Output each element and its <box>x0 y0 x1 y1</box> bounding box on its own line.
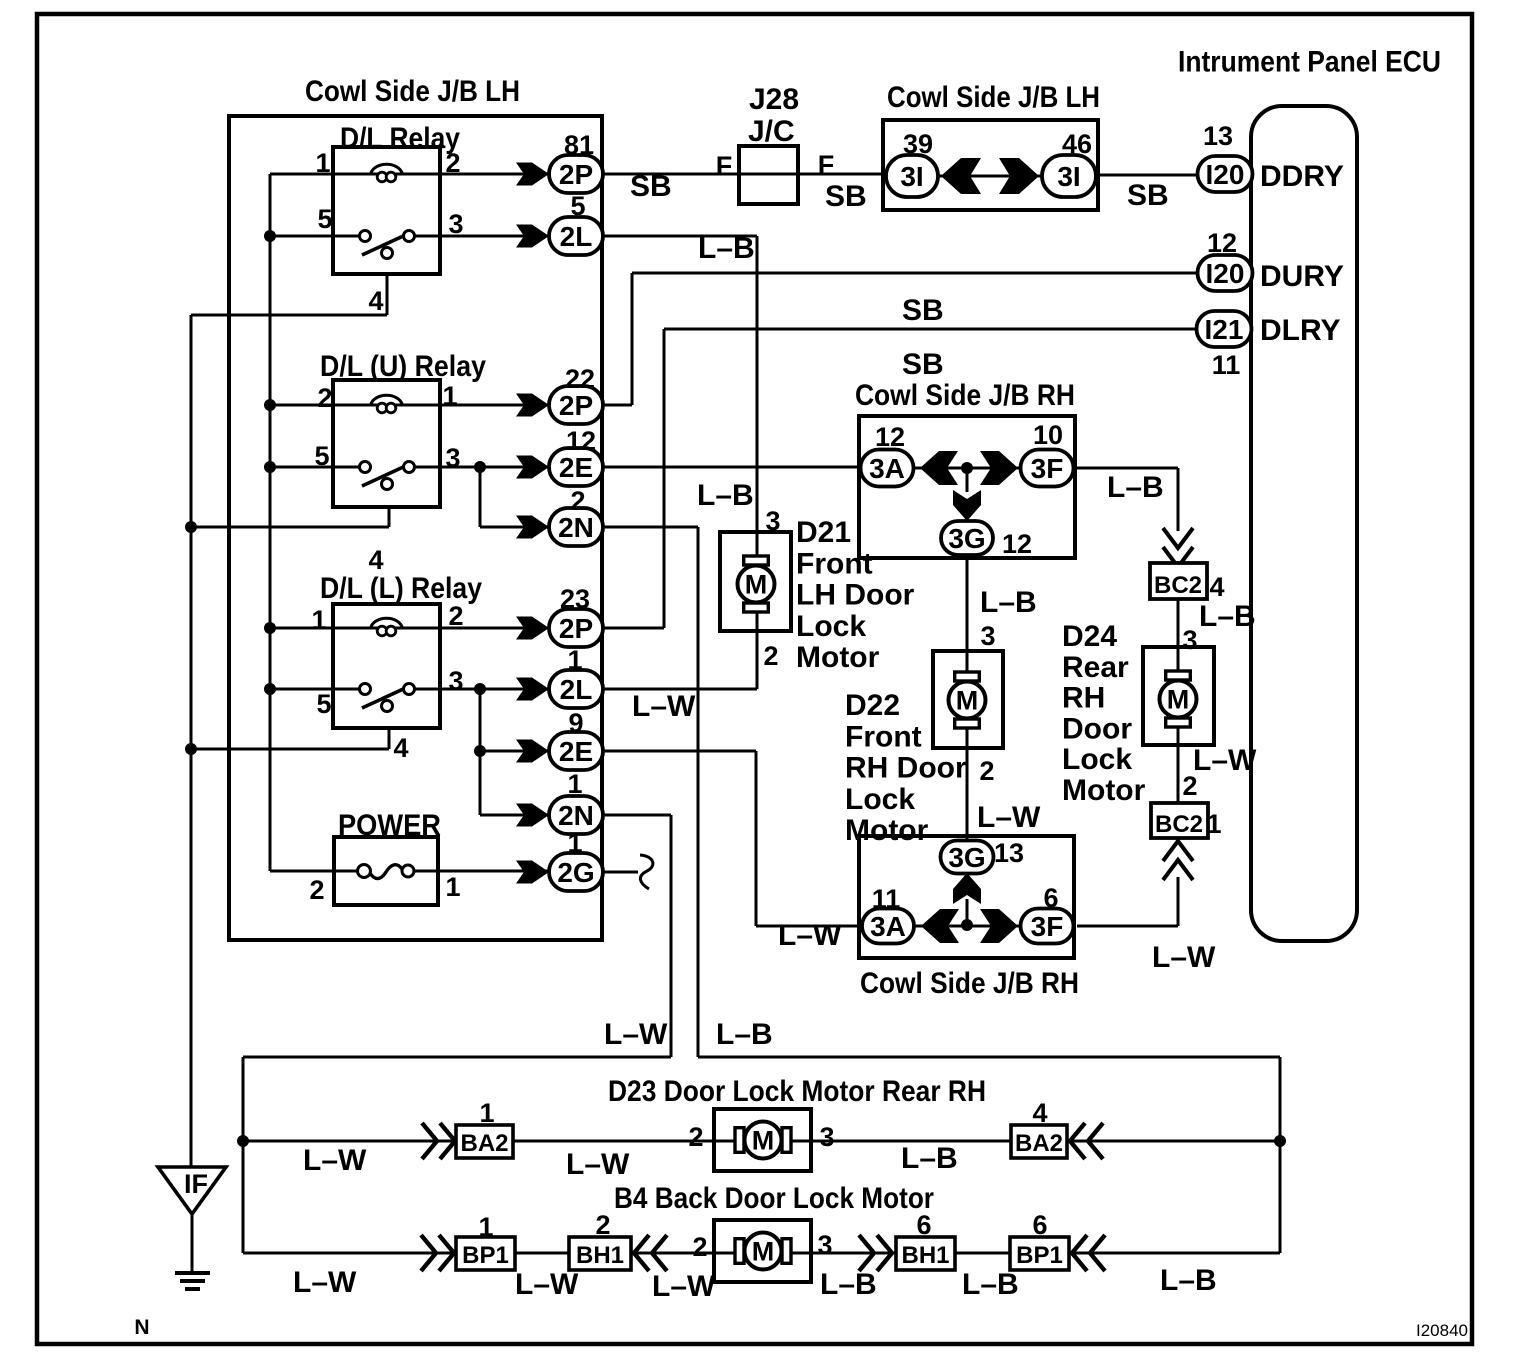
svg-text:DLRY: DLRY <box>1260 314 1341 347</box>
svg-text:L–B: L–B <box>1199 600 1256 633</box>
svg-text:M: M <box>956 686 979 716</box>
svg-text:1: 1 <box>311 605 326 635</box>
svg-text:1: 1 <box>1206 809 1221 839</box>
svg-text:1: 1 <box>442 381 457 411</box>
svg-text:Cowl Side J/B LH: Cowl Side J/B LH <box>887 81 1100 114</box>
svg-text:L–W: L–W <box>977 801 1041 834</box>
svg-text:LH Door: LH Door <box>796 579 915 612</box>
svg-text:2: 2 <box>317 383 332 413</box>
svg-text:Cowl Side J/B LH: Cowl Side J/B LH <box>305 75 520 108</box>
svg-text:2L: 2L <box>560 674 593 705</box>
svg-text:6: 6 <box>916 1210 931 1240</box>
svg-text:1: 1 <box>567 828 582 858</box>
svg-text:L–B: L–B <box>1160 1264 1217 1297</box>
svg-text:BH1: BH1 <box>576 1242 624 1269</box>
svg-text:D21: D21 <box>796 516 851 549</box>
svg-text:2: 2 <box>445 148 460 178</box>
svg-text:3G: 3G <box>948 842 985 873</box>
svg-text:L–W: L–W <box>515 1268 579 1301</box>
svg-text:3: 3 <box>765 506 780 536</box>
svg-text:39: 39 <box>903 129 933 159</box>
svg-text:2P: 2P <box>559 390 593 421</box>
svg-text:D/L (U) Relay: D/L (U) Relay <box>320 350 486 383</box>
svg-text:11: 11 <box>1212 350 1241 380</box>
svg-text:2P: 2P <box>559 613 593 644</box>
svg-text:DURY: DURY <box>1260 260 1344 293</box>
svg-text:L–B: L–B <box>697 479 754 512</box>
svg-text:2N: 2N <box>558 800 594 831</box>
svg-text:L–B: L–B <box>901 1142 958 1175</box>
svg-text:5: 5 <box>570 191 585 221</box>
svg-text:2G: 2G <box>557 857 594 888</box>
svg-text:1: 1 <box>479 1098 494 1128</box>
svg-text:M: M <box>745 570 768 600</box>
svg-text:L–B: L–B <box>698 232 755 265</box>
svg-text:12: 12 <box>566 426 596 456</box>
svg-text:L–B: L–B <box>980 586 1037 619</box>
svg-text:81: 81 <box>564 130 594 160</box>
svg-text:I20: I20 <box>1206 159 1245 190</box>
svg-text:5: 5 <box>317 204 332 234</box>
svg-text:F: F <box>818 150 835 180</box>
svg-text:3F: 3F <box>1031 453 1064 484</box>
svg-text:Front: Front <box>845 720 922 753</box>
svg-text:11: 11 <box>872 884 901 914</box>
svg-text:M: M <box>752 1237 775 1267</box>
svg-text:B4 Back Door Lock Motor: B4 Back Door Lock Motor <box>614 1182 934 1215</box>
svg-text:3: 3 <box>980 621 995 651</box>
svg-text:BP1: BP1 <box>462 1242 509 1269</box>
svg-text:2: 2 <box>595 1210 610 1240</box>
svg-text:I21: I21 <box>1205 314 1244 345</box>
svg-text:1: 1 <box>567 645 582 675</box>
svg-text:POWER: POWER <box>338 809 441 842</box>
svg-text:13: 13 <box>994 838 1024 868</box>
svg-text:1: 1 <box>478 1212 493 1242</box>
svg-text:BP1: BP1 <box>1016 1242 1063 1269</box>
svg-text:Lock: Lock <box>845 783 915 816</box>
svg-text:4: 4 <box>1032 1098 1047 1128</box>
svg-text:L–W: L–W <box>566 1148 630 1181</box>
svg-text:1: 1 <box>445 872 460 902</box>
svg-text:BC2: BC2 <box>1154 572 1202 599</box>
svg-text:D23 Door Lock Motor Rear RH: D23 Door Lock Motor Rear RH <box>608 1075 986 1108</box>
svg-text:3: 3 <box>819 1122 834 1152</box>
svg-text:SB: SB <box>825 180 867 213</box>
svg-text:M: M <box>752 1126 775 1156</box>
svg-text:10: 10 <box>1033 420 1063 450</box>
svg-text:SB: SB <box>630 170 672 203</box>
svg-text:2E: 2E <box>559 736 593 767</box>
svg-text:J28: J28 <box>749 83 799 116</box>
svg-text:5: 5 <box>316 689 331 719</box>
svg-text:RH: RH <box>1062 682 1105 715</box>
svg-text:3: 3 <box>448 666 463 696</box>
svg-text:12: 12 <box>1002 529 1032 559</box>
svg-text:Front: Front <box>796 547 873 580</box>
svg-text:2: 2 <box>570 486 585 516</box>
svg-text:J/C: J/C <box>748 115 795 148</box>
svg-text:I20840: I20840 <box>1416 1321 1468 1340</box>
svg-text:M: M <box>1167 685 1190 715</box>
svg-text:3: 3 <box>445 443 460 473</box>
svg-text:22: 22 <box>565 364 595 394</box>
svg-text:L–W: L–W <box>604 1018 668 1051</box>
svg-text:D/L Relay: D/L Relay <box>340 122 460 155</box>
svg-text:2P: 2P <box>559 159 593 190</box>
svg-text:L–B: L–B <box>962 1268 1019 1301</box>
svg-text:2L: 2L <box>560 221 593 252</box>
svg-text:BH1: BH1 <box>901 1242 949 1269</box>
svg-text:RH Door: RH Door <box>845 752 967 785</box>
svg-text:6: 6 <box>1032 1210 1047 1240</box>
svg-text:4: 4 <box>368 545 383 575</box>
svg-text:Rear: Rear <box>1062 651 1129 684</box>
svg-text:SB: SB <box>1127 179 1169 212</box>
svg-text:23: 23 <box>560 584 590 614</box>
svg-text:12: 12 <box>1207 228 1237 258</box>
svg-text:2: 2 <box>979 756 994 786</box>
svg-text:SB: SB <box>902 294 944 327</box>
svg-text:3I: 3I <box>900 161 923 192</box>
svg-text:2N: 2N <box>558 512 594 543</box>
svg-text:3G: 3G <box>948 523 985 554</box>
svg-text:BC2: BC2 <box>1155 811 1203 838</box>
svg-text:4: 4 <box>368 286 383 316</box>
svg-text:N: N <box>134 1316 149 1339</box>
svg-text:F: F <box>716 151 733 181</box>
svg-text:Cowl Side J/B RH: Cowl Side J/B RH <box>860 967 1079 1000</box>
svg-text:L–W: L–W <box>652 1270 716 1303</box>
svg-text:46: 46 <box>1062 129 1092 159</box>
svg-text:5: 5 <box>314 441 329 471</box>
svg-text:SB: SB <box>902 348 944 381</box>
svg-text:Intrument Panel ECU: Intrument Panel ECU <box>1178 46 1441 79</box>
svg-text:2E: 2E <box>559 452 593 483</box>
svg-text:2: 2 <box>448 601 463 631</box>
svg-text:4: 4 <box>393 733 408 763</box>
svg-text:I20: I20 <box>1206 258 1245 289</box>
svg-text:9: 9 <box>568 708 583 738</box>
svg-text:2: 2 <box>688 1122 703 1152</box>
svg-text:L–B: L–B <box>716 1018 773 1051</box>
svg-text:BA2: BA2 <box>1015 1130 1063 1157</box>
svg-text:L–W: L–W <box>632 690 696 723</box>
svg-text:Door: Door <box>1062 712 1132 745</box>
svg-text:2: 2 <box>309 875 324 905</box>
svg-text:3: 3 <box>1182 625 1197 655</box>
svg-text:6: 6 <box>1043 883 1058 913</box>
svg-text:Motor: Motor <box>796 641 880 674</box>
svg-text:1: 1 <box>567 769 582 799</box>
svg-text:Lock: Lock <box>796 610 866 643</box>
svg-text:3A: 3A <box>869 453 905 484</box>
svg-text:L–W: L–W <box>1152 941 1216 974</box>
svg-text:Motor: Motor <box>1062 774 1146 807</box>
svg-text:L–W: L–W <box>1193 744 1257 777</box>
svg-text:2: 2 <box>763 641 778 671</box>
svg-text:4: 4 <box>1209 572 1224 602</box>
svg-text:Cowl Side J/B RH: Cowl Side J/B RH <box>855 379 1075 412</box>
svg-text:Lock: Lock <box>1062 743 1132 776</box>
svg-text:L–B: L–B <box>1107 471 1164 504</box>
svg-text:L–W: L–W <box>303 1144 367 1177</box>
svg-text:Motor: Motor <box>845 814 929 847</box>
svg-text:2: 2 <box>1182 771 1197 801</box>
svg-text:12: 12 <box>875 422 905 452</box>
svg-text:1: 1 <box>315 148 330 178</box>
svg-text:IF: IF <box>184 1169 208 1199</box>
svg-text:BA2: BA2 <box>460 1130 508 1157</box>
svg-text:D22: D22 <box>845 689 900 722</box>
svg-text:L–B: L–B <box>820 1268 877 1301</box>
svg-text:D24: D24 <box>1062 620 1117 653</box>
svg-text:3I: 3I <box>1057 161 1080 192</box>
svg-text:3F: 3F <box>1031 911 1064 942</box>
svg-text:3A: 3A <box>870 911 906 942</box>
svg-text:13: 13 <box>1203 121 1233 151</box>
svg-text:3: 3 <box>817 1230 832 1260</box>
svg-text:3: 3 <box>448 209 463 239</box>
svg-text:2: 2 <box>692 1232 707 1262</box>
svg-text:L–W: L–W <box>293 1266 357 1299</box>
svg-text:DDRY: DDRY <box>1260 160 1344 193</box>
svg-text:L–W: L–W <box>778 919 842 952</box>
